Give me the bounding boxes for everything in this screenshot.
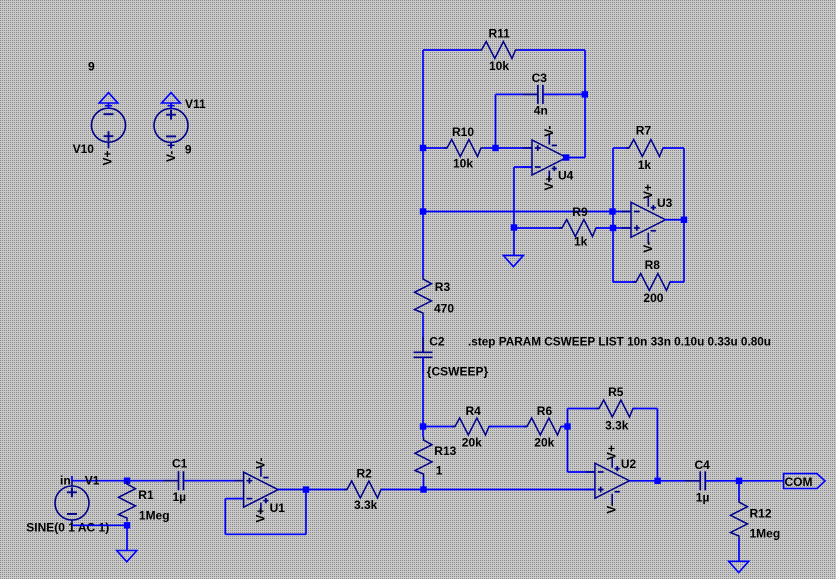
wire R10 left: [423, 147, 447, 149]
wire V1 top to C1: [72, 480, 179, 482]
node R9 / x=613 junction: [610, 225, 616, 231]
wire vertical x=567.5 R5 to U2 inverting: [567, 409, 569, 473]
wire vertical x=684 R7 to R8: [683, 148, 685, 282]
svg-text:1k: 1k: [638, 158, 652, 172]
resistor R6: [524, 404, 564, 449]
op-amp U2: [585, 445, 636, 514]
svg-text:470: 470: [434, 301, 454, 315]
wire long horizontal node to U3 inverting input: [423, 211, 631, 213]
svg-text:in: in: [60, 473, 71, 487]
wire R5 left: [568, 408, 600, 410]
node long wire / x=613 junction: [609, 208, 615, 214]
svg-text:R12: R12: [750, 507, 772, 521]
resistor R5: [596, 385, 636, 433]
svg-text:R13: R13: [434, 444, 456, 458]
svg-text:V-: V-: [164, 151, 178, 162]
wire R12 top lead: [738, 481, 740, 500]
svg-text:V-: V-: [542, 125, 556, 136]
svg-text:V10: V10: [73, 142, 95, 156]
svg-text:R2: R2: [357, 467, 373, 481]
ground flag on V11 top: [162, 93, 181, 109]
svg-text:200: 200: [643, 291, 663, 305]
net flag V+ at V10 bottom: [101, 142, 115, 165]
ground below U4: [503, 255, 523, 266]
resistor R8: [633, 258, 673, 305]
wire C2 to R4 node: [422, 357, 424, 437]
svg-text:9: 9: [88, 60, 95, 74]
node R10/C3 branch junction: [492, 145, 498, 151]
node R1 bottom junction: [124, 522, 130, 528]
svg-text:R11: R11: [489, 27, 511, 41]
capacitor C2: [414, 335, 489, 379]
svg-text:V-: V-: [253, 458, 267, 469]
svg-text:R3: R3: [435, 280, 451, 294]
wire R8 left: [613, 281, 636, 283]
capacitor C4: [685, 458, 721, 505]
svg-text:U2: U2: [621, 457, 637, 471]
resistor R11: [479, 27, 519, 73]
svg-text:3.3k: 3.3k: [605, 418, 629, 432]
resistor R13: [415, 437, 457, 478]
wire R2 to U2 noninverting input: [381, 489, 595, 491]
node R10 left junction: [420, 145, 426, 151]
wire R11 top left: [423, 49, 479, 51]
wire R3 to C2: [422, 316, 424, 352]
wire R5 feedback vertical: [656, 409, 658, 481]
wire U2 output: [629, 480, 700, 482]
wire U1 feedback left vertical: [224, 499, 226, 535]
ground flag on V10 top: [99, 93, 118, 109]
wire R7 right: [663, 147, 684, 149]
svg-text:{CSWEEP}: {CSWEEP}: [427, 365, 489, 379]
voltage source V11: [154, 97, 206, 157]
wire U1 feedback bottom: [225, 533, 306, 535]
svg-text:V-: V-: [641, 241, 655, 252]
resistor R12: [731, 499, 781, 541]
wire vertical x=613 R7 to R8: [612, 148, 614, 282]
wire U4 output to vertical: [565, 157, 585, 159]
svg-text:U4: U4: [558, 169, 574, 183]
ground below R12: [729, 561, 749, 572]
wire U4 inverting input down to ground: [513, 167, 515, 255]
svg-text:V-: V-: [605, 502, 619, 513]
capacitor C1: [163, 457, 199, 504]
svg-text:C2: C2: [429, 335, 445, 349]
net flag V- at V11 bottom: [164, 142, 178, 162]
wire R4 to R6: [489, 426, 527, 428]
svg-text:20k: 20k: [462, 435, 482, 449]
resistor R10: [444, 125, 484, 171]
svg-text:1Meg: 1Meg: [750, 527, 781, 541]
wire U4 inverting input: [514, 166, 532, 168]
svg-text:1Meg: 1Meg: [139, 509, 170, 523]
wire U1 feedback to inverting input: [225, 498, 243, 500]
node U3 output junction: [681, 217, 687, 223]
op-amp U1: [234, 458, 285, 523]
wire R11 to right vertical: [519, 49, 586, 51]
svg-text:1µ: 1µ: [173, 490, 187, 504]
voltage source V10: [73, 60, 126, 157]
net flag in: [60, 473, 72, 487]
wire R9 right: [596, 227, 631, 229]
svg-text:C4: C4: [695, 458, 711, 472]
svg-text:R5: R5: [608, 385, 624, 399]
wire R5 right: [633, 408, 657, 410]
wire C3 left: [496, 93, 539, 95]
wire U1 output: [278, 489, 347, 491]
svg-text:COM: COM: [785, 475, 813, 489]
svg-text:3.3k: 3.3k: [354, 498, 378, 512]
op-amp U4: [523, 125, 574, 190]
wire C3 left vertical: [495, 94, 497, 148]
svg-text:V+: V+: [101, 150, 115, 165]
wire R8 right: [670, 281, 684, 283]
wire V1 bottom: [72, 524, 127, 526]
wire left main vertical (x=423) top: [422, 50, 424, 277]
svg-text:V+: V+: [253, 508, 267, 523]
svg-text:R7: R7: [636, 124, 652, 138]
wire U3 output: [665, 219, 685, 221]
svg-text:9: 9: [185, 143, 192, 157]
wire R7 left: [613, 147, 629, 149]
svg-text:V1: V1: [85, 473, 100, 487]
svg-text:.step PARAM CSWEEP LIST 10n 33: .step PARAM CSWEEP LIST 10n 33n 0.10u 0.…: [468, 335, 771, 349]
svg-text:U1: U1: [270, 501, 286, 515]
resistor R3: [415, 276, 455, 316]
svg-text:V+: V+: [542, 175, 556, 190]
svg-text:V+: V+: [605, 445, 619, 460]
node C2/R4/R13 junction: [420, 423, 426, 429]
wire R10 to U4 noninverting input: [484, 147, 532, 149]
wire C4 to COM: [705, 480, 783, 482]
svg-text:1µ: 1µ: [696, 490, 710, 504]
svg-text:1: 1: [436, 464, 443, 478]
wire C3 right: [543, 93, 585, 95]
port flag COM: [784, 474, 825, 489]
resistor R9: [559, 205, 599, 248]
node U1 output junction: [303, 486, 309, 492]
wire R6 to junction: [561, 426, 568, 428]
svg-text:4n: 4n: [534, 104, 548, 118]
ground below R1: [117, 551, 137, 562]
svg-text:V11: V11: [185, 97, 206, 111]
node R1 top junction: [124, 478, 130, 484]
wire R12 to ground: [738, 539, 740, 561]
node main line R13 junction: [420, 486, 426, 492]
svg-text:C1: C1: [172, 457, 188, 471]
wire R13 to main line: [423, 477, 425, 490]
node C3/R11 junction: [582, 91, 588, 97]
node U4 output: [563, 154, 569, 160]
svg-text:U3: U3: [657, 196, 673, 210]
node U2 output junction: [654, 478, 660, 484]
node R12 top junction: [736, 478, 742, 484]
wire U1 feedback down: [305, 490, 307, 535]
node inverting/R9 junction: [511, 224, 517, 230]
svg-text:C3: C3: [532, 71, 548, 85]
resistor R2: [344, 467, 384, 512]
svg-text:10k: 10k: [489, 59, 509, 73]
svg-text:V+: V+: [641, 184, 655, 199]
resistor R4: [452, 404, 492, 449]
svg-text:R8: R8: [645, 258, 661, 272]
op-amp U3: [622, 184, 673, 253]
wire R4 left: [424, 426, 456, 428]
wire R9 left: [514, 227, 562, 229]
svg-text:R1: R1: [138, 488, 154, 502]
svg-text:R9: R9: [572, 205, 588, 219]
svg-text:10k: 10k: [453, 157, 473, 171]
node R6/R5 junction: [564, 423, 570, 429]
svg-text:R10: R10: [452, 125, 474, 139]
svg-text:R4: R4: [466, 404, 482, 418]
wire C1 to U1: [184, 480, 244, 482]
resistor R7: [626, 124, 666, 173]
svg-text:1k: 1k: [574, 234, 588, 248]
wire right vertical R11/C3/U4 output: [584, 50, 586, 158]
svg-text:SINE(0 1 AC 1): SINE(0 1 AC 1): [26, 520, 109, 534]
svg-text:20k: 20k: [534, 435, 554, 449]
capacitor C3: [522, 71, 558, 118]
svg-text:R6: R6: [537, 404, 553, 418]
node long wire left junction: [420, 208, 426, 214]
resistor R1: [119, 481, 170, 523]
wire to U2 inverting input: [568, 471, 595, 473]
wire R1 to ground: [126, 525, 128, 550]
voltage source V1: [26, 473, 109, 534]
